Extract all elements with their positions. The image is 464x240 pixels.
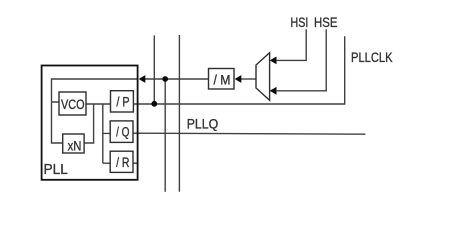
- svg-text:VCO: VCO: [61, 97, 85, 112]
- svg-text:HSI: HSI: [291, 14, 309, 30]
- svg-text:/ P: / P: [116, 94, 129, 109]
- svg-text:HSE: HSE: [314, 14, 338, 30]
- svg-text:PLLQ: PLLQ: [187, 115, 219, 131]
- multiplexer mux: [256, 53, 270, 101]
- wire vertical bus line A: [153, 35, 155, 103]
- svg-text:PLL: PLL: [44, 161, 68, 178]
- wire /R output stub: [133, 162, 138, 164]
- divider /M box: [209, 69, 235, 90]
- wire PLL internal input (to VCO and xN): [52, 79, 138, 143]
- arrowhead into /M box: [235, 75, 242, 83]
- svg-text:xN: xN: [68, 139, 82, 154]
- svg-text:/ M: / M: [214, 72, 231, 87]
- wire /P output to PLLCLK: [133, 36, 344, 104]
- arrowhead into PLL box: [139, 75, 146, 83]
- wire VCO output to /P: [86, 103, 111, 105]
- node junction dot on /M line: [162, 76, 168, 82]
- wire HSI input: [277, 29, 307, 60]
- wire vertical bus line B: [178, 35, 180, 192]
- divider /Q box: [110, 121, 133, 142]
- svg-text:/ R: / R: [116, 155, 130, 170]
- xN box: [63, 134, 84, 153]
- node junction dot on PLLCLK line: [151, 101, 157, 107]
- wire /Q output PLLQ: [133, 133, 365, 134]
- wire distribution to /Q /R: [103, 104, 110, 163]
- divider /P box: [111, 91, 134, 112]
- arrowhead HSI into mux: [270, 57, 277, 65]
- wire HSE input: [277, 29, 327, 91]
- PLL block box: [42, 66, 138, 180]
- divider /R box: [110, 151, 133, 172]
- VCO box: [59, 92, 86, 115]
- arrowhead HSE into mux: [270, 87, 277, 95]
- wire /M output to PLL: [144, 78, 208, 80]
- wire vertical from junction to bottom: [164, 79, 166, 192]
- svg-text:/ Q: / Q: [116, 125, 129, 140]
- wire mux output to /M: [241, 78, 256, 80]
- svg-text:PLLCLK: PLLCLK: [351, 49, 393, 65]
- wire feedback tap to xN: [84, 104, 94, 143]
